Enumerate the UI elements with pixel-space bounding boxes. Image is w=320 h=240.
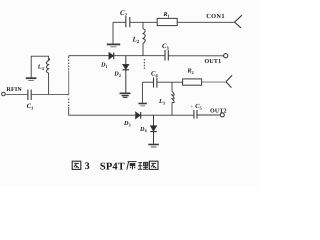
svg-text:C3: C3 [162,43,169,51]
svg-text:R2: R2 [186,67,193,74]
capacitor C3 [165,50,168,61]
wire R2 to connector [202,81,226,83]
node A (top branch corner at x68.7) [68,56,70,58]
diode D4 (shunt to ground) [150,115,157,144]
wire D3 to C5 (junctions at 153.5 and 172) [141,114,194,116]
wire corner to branch B rail [69,107,136,115]
svg-text:D1: D1 [100,62,108,69]
capacitor C1 [28,90,31,101]
svg-text:R1: R1 [163,12,170,18]
diode D3 (series) [136,112,141,119]
terminal OUT2 (open circle) [220,113,224,117]
connector CON2 (chevron) [226,75,232,87]
wire dotted (omitted throws, below RFIN node) [68,99,70,107]
terminal OUT1 (open circle) [224,54,228,58]
svg-text:C4: C4 [151,70,158,78]
wire C3 to OUT1 [168,55,223,57]
capacitor C5 [194,110,197,119]
wire branch A RF row [69,55,109,57]
connector CON1 (chevron) [235,15,243,28]
wire vertical to RFIN node [68,71,70,96]
caption 理 (hanzi, drawn) [138,162,149,169]
svg-text:L2: L2 [132,36,140,46]
svg-text:3: 3 [85,161,90,172]
wire R1 to CON1 [177,21,234,23]
wire C4 to R2 (junction with L3 at x172) [157,81,183,83]
wire C1 to common node [31,94,68,96]
resistor R2 [183,79,202,85]
svg-text:OUT2: OUT2 [210,108,227,114]
svg-text:D4: D4 [139,126,147,133]
svg-text:CON1: CON1 [206,13,225,20]
terminal RFIN (open circle) [2,92,6,96]
resistor R1 [157,18,177,25]
svg-text:C5: C5 [195,103,202,110]
svg-text:C1: C1 [27,103,34,111]
inductor L3 [172,82,174,115]
caption 图 (hanzi, drawn) [72,161,81,169]
caption 图 (hanzi, drawn) [149,161,158,169]
wire dotted (omitted throws, below L2) [144,59,146,69]
svg-text:D3: D3 [123,120,131,127]
svg-text:C2: C2 [120,9,128,19]
svg-text:L3: L3 [158,98,166,105]
svg-text:RFIN: RFIN [7,87,23,93]
svg-text:OUT1: OUT1 [205,59,222,65]
wire bias B row left [142,81,153,83]
capacitor C2 [126,17,130,27]
wire C2 to R1 (junction with L2 at x143) [130,21,157,23]
diode D1 (series) [109,53,114,60]
wire top bias row left [113,21,125,23]
ground G4 (D4 ground) [148,145,159,148]
inductor L4 (shunt to ground) [31,56,49,94]
wire RFIN to C1 [5,94,27,96]
svg-text:D2: D2 [113,71,121,78]
wire dotted (omitted throws, upper) [68,59,70,69]
ground G2 (D2 ground) [120,93,131,97]
capacitor C4 [154,77,157,87]
ground G3 (C4 bias ground) [138,82,146,106]
ground G5 (L4 ground) [26,78,37,80]
svg-text:L4: L4 [37,64,45,71]
svg-text:SP4T: SP4T [100,161,125,172]
caption 原 (hanzi, drawn) [127,162,137,170]
ground G1 (C2 bias ground) [107,22,120,47]
wire D1 to C3 (junctions at 125.8 and 143) [114,55,165,57]
inductor L2 [143,22,145,55]
diode D2 (shunt to ground) [123,56,130,93]
wire C5 to OUT2 [197,114,220,116]
